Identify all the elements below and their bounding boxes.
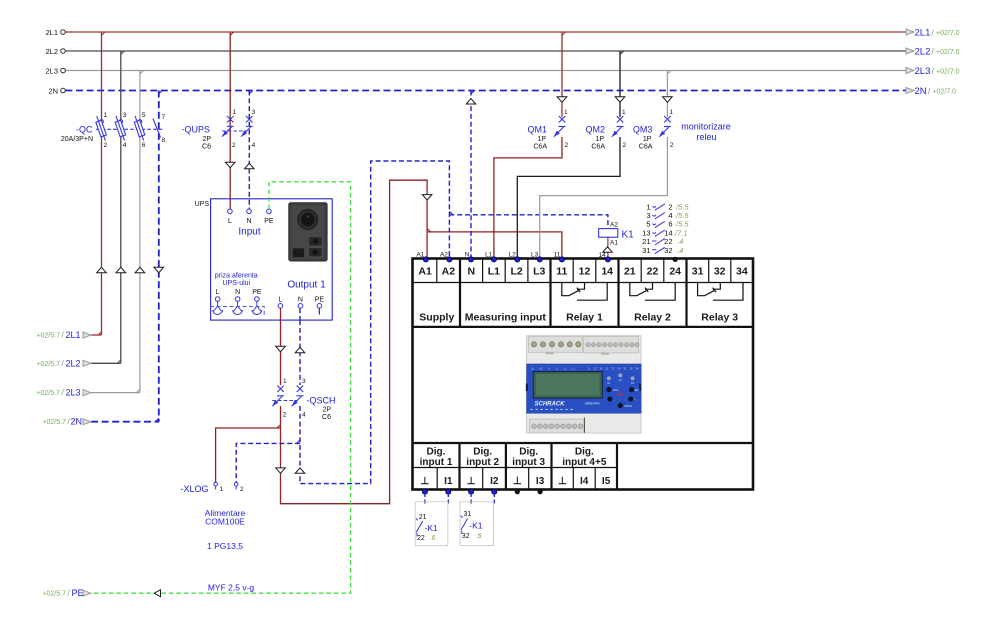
svg-text:L: L bbox=[228, 218, 232, 225]
svg-text:UPS: UPS bbox=[195, 201, 210, 208]
svg-text:2: 2 bbox=[623, 142, 627, 149]
svg-text:I2: I2 bbox=[490, 476, 499, 487]
svg-text:1: 1 bbox=[233, 109, 237, 116]
svg-text:2L3: 2L3 bbox=[915, 66, 931, 77]
svg-text:3: 3 bbox=[252, 109, 256, 116]
svg-text:21: 21 bbox=[419, 514, 427, 521]
svg-text:-QC: -QC bbox=[76, 125, 93, 135]
svg-text:I4: I4 bbox=[580, 476, 589, 487]
svg-text:⊥: ⊥ bbox=[421, 476, 430, 487]
svg-text:6: 6 bbox=[142, 142, 146, 149]
svg-text:L: L bbox=[216, 289, 220, 296]
svg-text:24: 24 bbox=[669, 266, 681, 278]
svg-text:monitorizare: monitorizare bbox=[681, 122, 731, 132]
svg-text:+02/7.0: +02/7.0 bbox=[933, 89, 957, 96]
svg-text:1: 1 bbox=[669, 109, 673, 116]
svg-text:2P: 2P bbox=[202, 136, 211, 143]
svg-text:I1: I1 bbox=[444, 476, 453, 487]
svg-text:2: 2 bbox=[232, 142, 236, 149]
svg-text:COM100E: COM100E bbox=[205, 517, 245, 527]
svg-text:PE: PE bbox=[264, 218, 274, 225]
svg-text:2: 2 bbox=[240, 486, 244, 493]
svg-text:2: 2 bbox=[565, 142, 569, 149]
svg-text:32: 32 bbox=[714, 266, 726, 278]
svg-text:Input: Input bbox=[238, 227, 260, 238]
svg-text:4: 4 bbox=[302, 412, 306, 419]
svg-text:C6A: C6A bbox=[591, 144, 605, 151]
svg-text:2L1: 2L1 bbox=[66, 330, 81, 340]
svg-text:.6: .6 bbox=[430, 535, 436, 542]
svg-text:22: 22 bbox=[417, 535, 425, 542]
svg-text:2L1: 2L1 bbox=[45, 28, 58, 37]
svg-text:-QUPS: -QUPS bbox=[181, 125, 210, 135]
svg-text:L1: L1 bbox=[488, 266, 500, 278]
svg-text:-XLOG: -XLOG bbox=[180, 484, 208, 494]
svg-text:1: 1 bbox=[104, 112, 108, 119]
svg-text:K1: K1 bbox=[622, 230, 635, 241]
svg-text:21: 21 bbox=[624, 266, 636, 278]
svg-text:14: 14 bbox=[601, 266, 613, 278]
svg-text:priza aferenta: priza aferenta bbox=[215, 273, 258, 280]
svg-text:34: 34 bbox=[736, 266, 748, 278]
svg-text:1: 1 bbox=[622, 109, 626, 116]
svg-text:L: L bbox=[278, 297, 282, 304]
svg-text:2L2: 2L2 bbox=[66, 358, 81, 368]
svg-text:2: 2 bbox=[283, 412, 287, 419]
svg-text:N: N bbox=[246, 218, 251, 225]
svg-text:QM1: QM1 bbox=[527, 125, 547, 135]
svg-text:PE: PE bbox=[72, 588, 84, 598]
svg-text:/5.5: /5.5 bbox=[675, 220, 689, 229]
svg-text:+02/5.7: +02/5.7 bbox=[42, 591, 66, 598]
svg-text:21: 21 bbox=[642, 237, 650, 246]
svg-text:R2: R2 bbox=[619, 378, 623, 382]
svg-text:+02/7.0: +02/7.0 bbox=[936, 69, 960, 76]
svg-text:/5.5: /5.5 bbox=[675, 202, 689, 211]
svg-text:A2: A2 bbox=[610, 222, 618, 229]
svg-text:N: N bbox=[298, 297, 303, 304]
svg-text:Output 1: Output 1 bbox=[287, 280, 326, 291]
svg-text:1P: 1P bbox=[595, 136, 604, 143]
svg-text:12: 12 bbox=[579, 266, 591, 278]
svg-text:32: 32 bbox=[462, 533, 470, 540]
svg-text:4: 4 bbox=[252, 142, 256, 149]
svg-text:L3: L3 bbox=[533, 266, 545, 278]
svg-text:31: 31 bbox=[692, 266, 704, 278]
svg-text:MYF 2,5 v-g: MYF 2,5 v-g bbox=[208, 583, 255, 593]
svg-text:QM2: QM2 bbox=[585, 125, 605, 135]
svg-text:5: 5 bbox=[142, 112, 146, 119]
svg-text:input 3: input 3 bbox=[512, 457, 545, 468]
svg-text:3: 3 bbox=[646, 211, 650, 220]
svg-text:Dig.: Dig. bbox=[473, 447, 492, 458]
svg-text:1: 1 bbox=[646, 202, 650, 211]
svg-text:A1: A1 bbox=[531, 366, 535, 370]
svg-text:2: 2 bbox=[668, 202, 672, 211]
svg-text:R1: R1 bbox=[607, 381, 611, 385]
svg-text:C6: C6 bbox=[202, 144, 211, 151]
svg-text:32: 32 bbox=[664, 246, 672, 255]
svg-text:8: 8 bbox=[162, 137, 166, 144]
svg-text:.4: .4 bbox=[677, 246, 683, 255]
svg-text:1: 1 bbox=[564, 109, 568, 116]
svg-text:Supply: Supply bbox=[419, 312, 454, 324]
svg-text:N: N bbox=[235, 289, 240, 296]
svg-text:2P: 2P bbox=[322, 407, 331, 414]
svg-text:/5.5: /5.5 bbox=[675, 211, 689, 220]
svg-text:2: 2 bbox=[104, 142, 108, 149]
svg-text:Relay 2: Relay 2 bbox=[634, 312, 671, 324]
svg-text:A2: A2 bbox=[440, 252, 448, 259]
svg-text:A2: A2 bbox=[442, 266, 456, 278]
svg-text:input 2: input 2 bbox=[466, 457, 499, 468]
svg-text:-K1: -K1 bbox=[425, 523, 439, 533]
svg-text:31: 31 bbox=[464, 511, 472, 518]
svg-text:22: 22 bbox=[647, 266, 659, 278]
svg-text:QM3: QM3 bbox=[633, 125, 653, 135]
svg-text:6: 6 bbox=[668, 220, 672, 229]
svg-text:11: 11 bbox=[556, 266, 567, 278]
svg-text:+02/5.7: +02/5.7 bbox=[36, 361, 60, 368]
svg-text:2L2: 2L2 bbox=[915, 47, 931, 58]
svg-text:4: 4 bbox=[668, 211, 672, 220]
svg-text:2L3: 2L3 bbox=[45, 67, 58, 76]
svg-text:UPS-ului: UPS-ului bbox=[222, 280, 250, 287]
svg-text:C6A: C6A bbox=[533, 144, 547, 151]
svg-text:Dig.: Dig. bbox=[575, 447, 594, 458]
svg-text:A2: A2 bbox=[539, 366, 543, 370]
svg-text:SCHRACK: SCHRACK bbox=[535, 402, 566, 408]
svg-text:PROG: PROG bbox=[625, 404, 633, 408]
svg-text:1 PG13,5: 1 PG13,5 bbox=[207, 541, 243, 551]
svg-text:.6: .6 bbox=[476, 533, 482, 540]
svg-text:2L2: 2L2 bbox=[45, 47, 58, 56]
svg-text:C6: C6 bbox=[322, 414, 331, 421]
svg-text:/7.1: /7.1 bbox=[674, 228, 688, 237]
svg-text:20A/3P+N: 20A/3P+N bbox=[61, 136, 93, 143]
svg-text:14: 14 bbox=[664, 228, 672, 237]
svg-text:2L3: 2L3 bbox=[66, 388, 81, 398]
svg-text:input 4+5: input 4+5 bbox=[562, 457, 607, 468]
svg-text:ESC: ESC bbox=[613, 388, 618, 392]
svg-text:Relay 1: Relay 1 bbox=[566, 312, 603, 324]
svg-text:PE: PE bbox=[315, 297, 325, 304]
svg-text:N: N bbox=[548, 366, 550, 370]
svg-text:input 1: input 1 bbox=[420, 457, 453, 468]
svg-text:5: 5 bbox=[646, 220, 650, 229]
svg-text:2: 2 bbox=[670, 142, 674, 149]
svg-text:13: 13 bbox=[642, 228, 650, 237]
svg-text:4: 4 bbox=[123, 142, 127, 149]
svg-text:2N: 2N bbox=[48, 87, 58, 96]
svg-text:I3: I3 bbox=[536, 476, 545, 487]
svg-text:7: 7 bbox=[162, 114, 166, 121]
svg-text:+02/7.0: +02/7.0 bbox=[936, 30, 960, 37]
svg-text:Dig.: Dig. bbox=[427, 447, 446, 458]
svg-text:.4: .4 bbox=[677, 237, 683, 246]
svg-text:22: 22 bbox=[664, 237, 672, 246]
svg-text:PE: PE bbox=[252, 289, 262, 296]
svg-text:1P: 1P bbox=[643, 136, 652, 143]
svg-text:Dig.: Dig. bbox=[519, 447, 538, 458]
svg-text:2N: 2N bbox=[915, 86, 927, 97]
svg-text:+02/5.7: +02/5.7 bbox=[36, 333, 60, 340]
svg-text:⊥: ⊥ bbox=[558, 476, 567, 487]
svg-text:3: 3 bbox=[302, 378, 306, 385]
svg-text:A1: A1 bbox=[610, 240, 618, 247]
svg-text:Relay 3: Relay 3 bbox=[701, 312, 738, 324]
svg-text:releu: releu bbox=[696, 132, 716, 142]
svg-text:-K1: -K1 bbox=[469, 521, 483, 531]
svg-text:3: 3 bbox=[123, 112, 127, 119]
svg-text:2N: 2N bbox=[71, 417, 83, 427]
svg-text:Measuring input: Measuring input bbox=[465, 312, 547, 324]
svg-text:C6A: C6A bbox=[639, 144, 653, 151]
svg-text:R3: R3 bbox=[631, 381, 635, 385]
svg-text:-QSCH: -QSCH bbox=[307, 396, 336, 406]
svg-text:L2: L2 bbox=[510, 266, 522, 278]
svg-text:31: 31 bbox=[642, 246, 650, 255]
svg-text:A1: A1 bbox=[418, 266, 432, 278]
svg-text:+02/5.7: +02/5.7 bbox=[36, 390, 60, 397]
svg-text:N: N bbox=[468, 266, 476, 278]
svg-text:1: 1 bbox=[283, 378, 287, 385]
svg-text:1P: 1P bbox=[537, 136, 546, 143]
svg-text:⊥: ⊥ bbox=[513, 476, 522, 487]
svg-text:UMsch4x: UMsch4x bbox=[585, 402, 600, 406]
svg-text:+02/7.0: +02/7.0 bbox=[936, 49, 960, 56]
svg-text:+02/5.7: +02/5.7 bbox=[42, 419, 66, 426]
svg-text:I5: I5 bbox=[602, 476, 611, 487]
svg-text:1: 1 bbox=[220, 486, 224, 493]
svg-text:2L1: 2L1 bbox=[915, 28, 931, 39]
svg-text:⊥: ⊥ bbox=[467, 476, 476, 487]
svg-text:A1: A1 bbox=[416, 252, 424, 259]
